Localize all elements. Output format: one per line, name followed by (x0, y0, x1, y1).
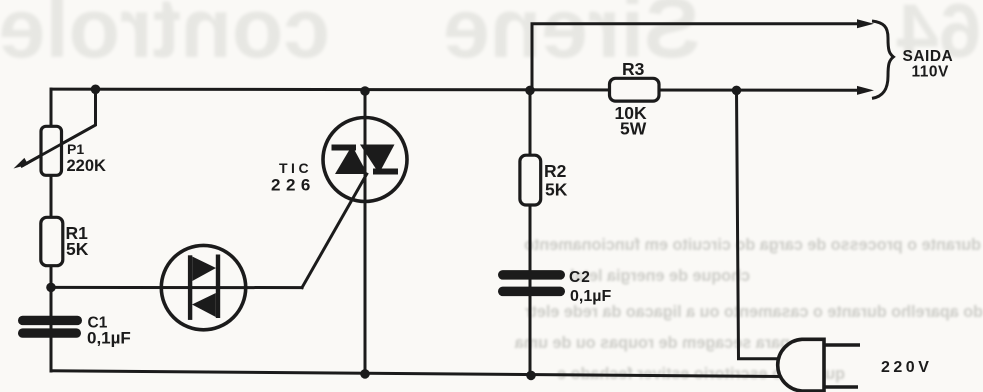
svg-text:110V: 110V (912, 64, 950, 81)
svg-text:220V: 220V (881, 359, 932, 376)
svg-text:SAIDA: SAIDA (903, 48, 954, 65)
svg-text:C2: C2 (569, 269, 591, 286)
svg-text:durante o processo de carga do: durante o processo de carga do circuito … (524, 236, 981, 254)
svg-text:controle: controle (0, 0, 330, 75)
svg-text:choque de energia letal: choque de energia letal (570, 267, 750, 285)
svg-text:226: 226 (271, 176, 316, 195)
svg-text:Sirene: Sirene (443, 0, 700, 75)
svg-text:0,1µF: 0,1µF (570, 288, 611, 305)
svg-text:R2: R2 (544, 161, 567, 181)
svg-text:do aparelho durante o casament: do aparelho durante o casamento ou a lig… (524, 303, 983, 321)
svg-text:5K: 5K (545, 180, 568, 200)
svg-text:R3: R3 (622, 59, 645, 79)
svg-text:5W: 5W (620, 119, 647, 139)
svg-text:0,1µF: 0,1µF (87, 329, 131, 348)
svg-text:P1: P1 (67, 141, 84, 157)
svg-text:para secagem de roupas ou de u: para secagem de roupas ou de uma (514, 334, 790, 352)
svg-text:5K: 5K (66, 239, 89, 259)
svg-text:220K: 220K (67, 157, 107, 175)
svg-text:TIC: TIC (279, 160, 312, 176)
